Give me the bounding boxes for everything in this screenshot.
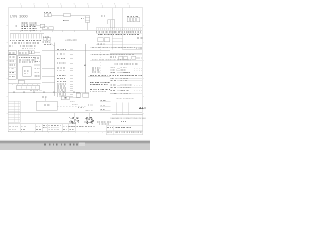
svg-text:+100+100: +100+100 bbox=[65, 38, 77, 42]
svg-text:DIAGRAM OF CONNECTIONS LYN 300: DIAGRAM OF CONNECTIONS LYN 3000 bbox=[111, 117, 146, 120]
svg-text:7: 7 bbox=[101, 4, 102, 6]
svg-text:1: 1 bbox=[20, 4, 21, 6]
svg-text:LYN 3000: LYN 3000 bbox=[10, 14, 28, 18]
svg-text:6: 6 bbox=[87, 4, 88, 6]
svg-text:5: 5 bbox=[74, 4, 75, 6]
svg-text:4: 4 bbox=[60, 4, 61, 6]
svg-text:9: 9 bbox=[128, 4, 129, 6]
svg-text:2: 2 bbox=[33, 4, 34, 6]
svg-text:3: 3 bbox=[47, 4, 48, 6]
svg-text:8: 8 bbox=[114, 4, 115, 6]
